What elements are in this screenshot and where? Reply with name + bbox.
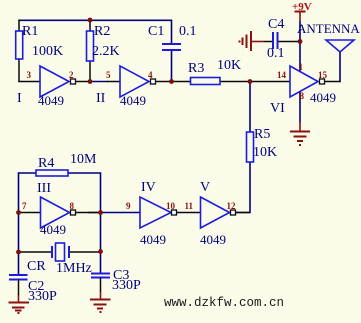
- svg-text:4: 4: [148, 70, 153, 80]
- svg-text:CR: CR: [27, 259, 46, 274]
- svg-text:II: II: [96, 91, 106, 106]
- svg-text:IV: IV: [141, 180, 156, 195]
- svg-text:4049: 4049: [140, 232, 166, 247]
- svg-text:10K: 10K: [217, 58, 241, 73]
- svg-text:www.dzkfw.com.cn: www.dzkfw.com.cn: [164, 296, 284, 310]
- svg-text:11: 11: [185, 201, 194, 211]
- svg-text:R5: R5: [254, 127, 270, 142]
- svg-text:15: 15: [318, 70, 328, 80]
- svg-text:R1: R1: [22, 24, 38, 39]
- svg-text:10K: 10K: [253, 145, 277, 160]
- svg-text:0.1: 0.1: [179, 24, 197, 39]
- svg-text:VI: VI: [270, 101, 285, 116]
- svg-text:1MHz: 1MHz: [56, 261, 92, 276]
- svg-text:4049: 4049: [38, 93, 64, 108]
- svg-text:2: 2: [69, 70, 74, 80]
- svg-text:III: III: [37, 181, 51, 196]
- svg-text:12: 12: [227, 201, 237, 211]
- svg-text:ANTENNA: ANTENNA: [297, 21, 360, 36]
- svg-text:100K: 100K: [32, 44, 63, 59]
- svg-text:R4: R4: [38, 156, 54, 171]
- svg-text:0.1: 0.1: [267, 46, 285, 61]
- svg-text:C4: C4: [268, 17, 284, 32]
- svg-text:9: 9: [126, 201, 131, 211]
- svg-text:330P: 330P: [28, 289, 57, 304]
- svg-text:R3: R3: [188, 61, 204, 76]
- svg-text:4049: 4049: [310, 90, 336, 105]
- svg-text:3: 3: [27, 70, 32, 80]
- svg-text:330P: 330P: [112, 278, 141, 293]
- svg-text:4049: 4049: [40, 222, 66, 237]
- svg-text:5: 5: [106, 70, 111, 80]
- svg-text:V: V: [200, 180, 210, 195]
- svg-text:C1: C1: [148, 24, 164, 39]
- svg-text:4049: 4049: [120, 93, 146, 108]
- svg-text:I: I: [17, 91, 22, 106]
- svg-text:10M: 10M: [70, 152, 97, 167]
- svg-text:1: 1: [299, 62, 304, 72]
- svg-text:+9V: +9V: [292, 1, 312, 13]
- svg-text:8: 8: [300, 91, 305, 101]
- svg-text:7: 7: [22, 201, 27, 211]
- svg-text:R2: R2: [94, 24, 110, 39]
- svg-text:10: 10: [166, 201, 176, 211]
- svg-text:4049: 4049: [200, 232, 226, 247]
- svg-text:2.2K: 2.2K: [92, 44, 120, 59]
- svg-text:8: 8: [70, 201, 75, 211]
- svg-text:14: 14: [277, 70, 287, 80]
